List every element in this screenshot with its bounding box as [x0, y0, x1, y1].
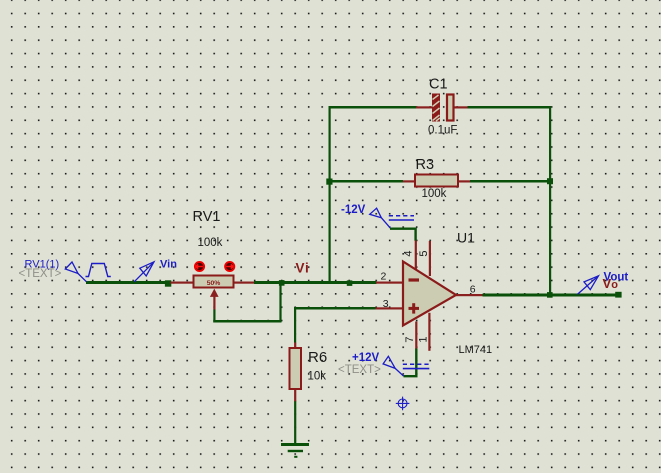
svg-text:+12V: +12V [352, 352, 380, 364]
origin marker [396, 397, 410, 411]
probe Vin [134, 262, 154, 282]
wire C1 branch left [329, 106, 417, 109]
label Vin [160, 258, 177, 270]
wire right vertical feedback drop [549, 106, 551, 296]
label pin 2 [381, 271, 387, 283]
wire R3 branch left [331, 180, 404, 183]
power terminal -12V [370, 208, 414, 228]
label R6 [308, 349, 327, 366]
wire op-amp pin 1 stub [428, 313, 430, 351]
wire RV1 wiper red stem [213, 297, 215, 310]
wire wiper loop down [213, 310, 215, 323]
label C1 value 0.1uF [428, 125, 457, 137]
svg-text:LM741: LM741 [459, 344, 493, 356]
wire -12V supply to pin 4 [390, 229, 416, 241]
wire wiper loop up to Vi line [279, 283, 281, 322]
svg-text:2: 2 [381, 271, 387, 283]
svg-text:V: V [603, 276, 612, 291]
svg-text:<TEXT>: <TEXT> [19, 268, 62, 280]
label LM741 [459, 344, 493, 356]
node output terminal [615, 292, 621, 298]
generator RV1(1) [65, 262, 111, 282]
probe Vout [578, 276, 599, 295]
node junction R3 right riser [547, 178, 553, 184]
RV1 increment button [225, 262, 234, 271]
svg-text:4: 4 [402, 250, 414, 256]
label RV1 [193, 209, 221, 225]
svg-text:Vi: Vi [296, 261, 310, 276]
wire op-amp pin 3 horizontal [294, 307, 376, 310]
wire op-amp pin 3 red lead [376, 307, 404, 309]
wire output line to terminal [483, 294, 616, 297]
label C1 [429, 77, 448, 93]
label RV1 value 100k [198, 237, 223, 249]
svg-text:5: 5 [418, 250, 430, 256]
svg-text:R3: R3 [416, 157, 435, 173]
label RV1(1) [25, 258, 60, 270]
svg-text:0.1uF: 0.1uF [428, 125, 457, 137]
label pin 5 [418, 250, 430, 256]
wire R3 branch right [470, 180, 551, 183]
label R3 value 100k [422, 188, 447, 200]
label Vout [604, 271, 629, 283]
wire C1 branch right [468, 106, 552, 109]
label pin 3 [383, 298, 389, 310]
capacitor C1 [432, 94, 454, 122]
svg-text:50%: 50% [207, 280, 221, 287]
ground [281, 443, 309, 458]
node junction R3 left riser [326, 179, 332, 185]
label pin 7 [404, 336, 416, 342]
op-amp U1 [403, 262, 456, 326]
label pin 6 [470, 284, 476, 296]
svg-text:1: 1 [418, 336, 430, 342]
svg-text:3: 3 [383, 298, 389, 310]
wire pin 7 to +12V supply [404, 349, 417, 377]
node junction pin2 branch [347, 280, 353, 286]
wire R6 to ground [294, 401, 296, 443]
wire op-amp pin 6 red lead [456, 294, 483, 296]
svg-text:C1: C1 [429, 77, 448, 93]
wire op-amp pin 2 red lead [376, 282, 404, 284]
wire pin3 branch down to R6 [294, 308, 296, 343]
node junction output and feedback [547, 292, 553, 298]
wire C1 right red lead [454, 106, 468, 108]
label pin 4 [402, 250, 414, 256]
label TEXT placeholder of generator [19, 268, 62, 280]
wire op-amp pin 4 red lead [415, 241, 417, 271]
power terminal +12V [383, 356, 429, 376]
label -12V [341, 204, 366, 216]
wire input line from generator to RV1 [86, 281, 166, 284]
svg-text:-12V: -12V [341, 204, 366, 216]
label pin 1 [418, 336, 430, 342]
wire RV1 right lead [234, 282, 255, 284]
wire RV1 left lead [171, 282, 194, 284]
wire R3 right red lead [458, 180, 471, 182]
label R3 [416, 157, 435, 173]
potentiometer RV1 [194, 276, 234, 297]
resistor R3 [415, 175, 458, 187]
wire R6 bottom red lead [294, 389, 296, 402]
svg-text:RV1: RV1 [193, 209, 221, 225]
svg-text:Vin: Vin [160, 258, 177, 270]
svg-text:o: o [611, 279, 618, 291]
wire R6 top red lead [294, 343, 296, 349]
label +12V [352, 352, 380, 364]
label R6 value 10k [308, 371, 327, 383]
label Vo [603, 276, 619, 291]
node input terminal junction [165, 280, 171, 286]
label TEXT placeholder of +12V [338, 364, 381, 376]
resistor R6 [290, 348, 302, 389]
svg-text:R6: R6 [308, 349, 327, 366]
svg-text:100k: 100k [422, 188, 447, 200]
RV1 decrement button [195, 262, 204, 271]
wire left vertical feedback riser [329, 106, 331, 283]
svg-text:7: 7 [404, 336, 416, 342]
label U1 [457, 230, 475, 246]
wire RV1 to op-amp pin 2 (node Vi) [254, 281, 377, 284]
node junction wiper loop on Vi line [279, 280, 285, 286]
wire op-amp pin 5 stub [429, 241, 431, 276]
wire R3 left red lead [403, 180, 416, 182]
svg-text:100k: 100k [198, 237, 223, 249]
svg-text:10k: 10k [308, 371, 327, 383]
wire op-amp pin 7 red lead [415, 322, 417, 350]
label node Vi [296, 261, 310, 276]
svg-text:U1: U1 [457, 230, 475, 246]
wire wiper loop bottom [213, 320, 281, 323]
wire C1 left red lead [416, 106, 433, 108]
svg-text:6: 6 [470, 284, 476, 296]
svg-text:<TEXT>: <TEXT> [338, 364, 381, 376]
